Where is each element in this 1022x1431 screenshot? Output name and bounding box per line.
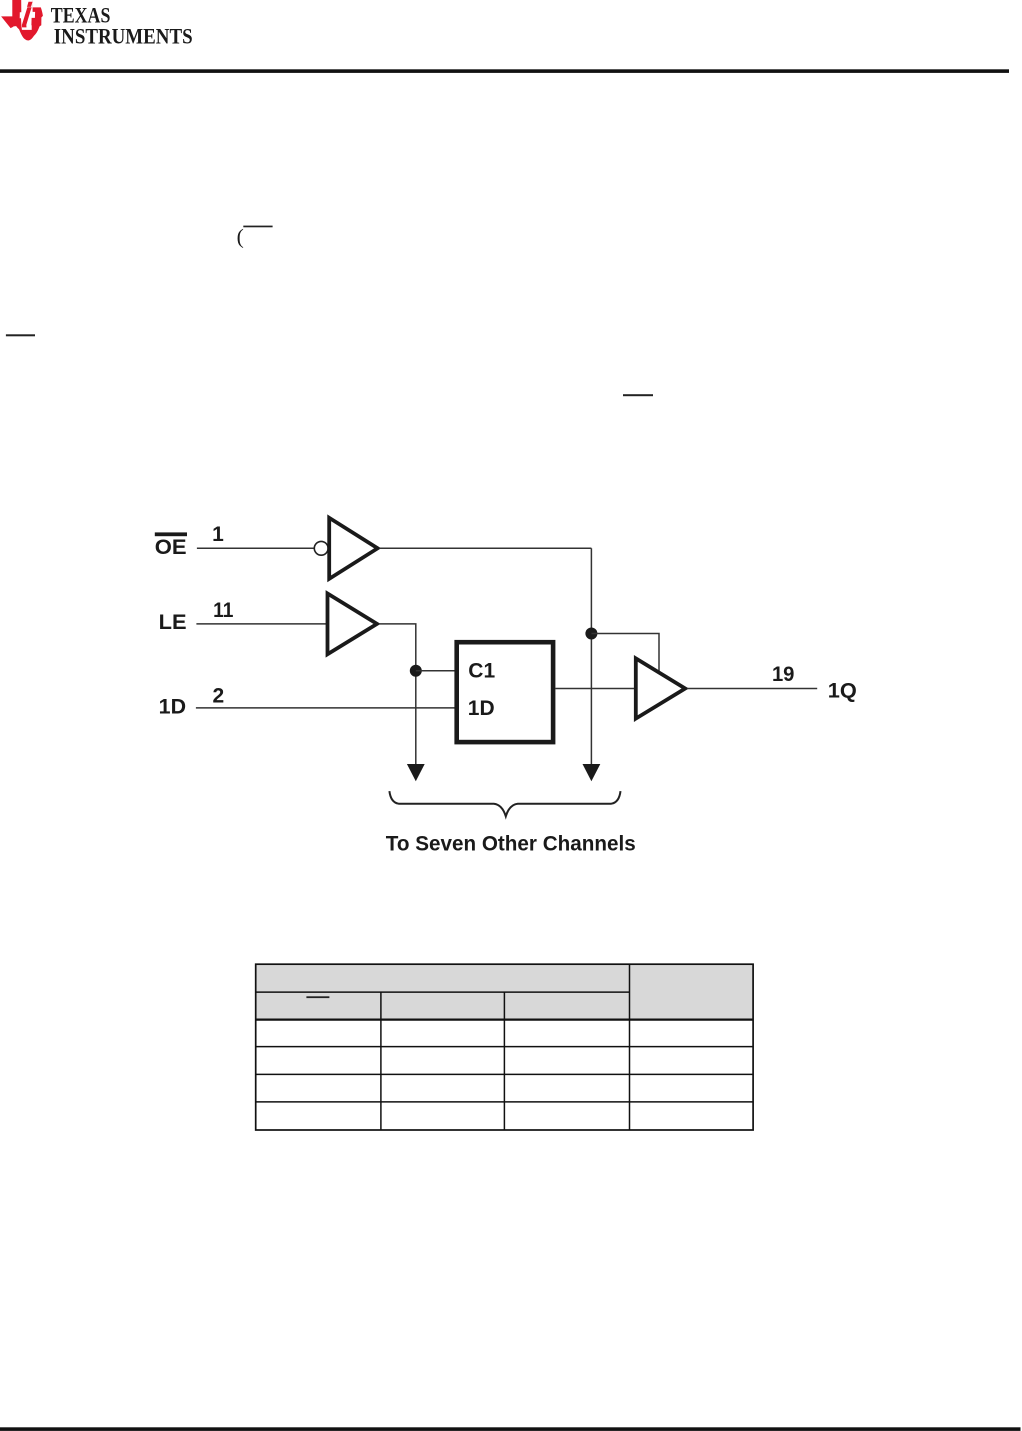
table outer border xyxy=(256,964,753,1130)
table header bottom line xyxy=(256,1018,753,1020)
TI logo red Texas bug xyxy=(1,0,43,41)
svg-text:C1: C1 xyxy=(468,659,495,682)
wire OE to output buffer control xyxy=(591,634,659,672)
wire LE input xyxy=(196,623,327,625)
table header split line xyxy=(256,991,630,993)
svg-text:1D: 1D xyxy=(159,696,186,719)
svg-text:To Seven Other Channels: To Seven Other Channels xyxy=(386,833,636,856)
svg-text:11: 11 xyxy=(213,599,234,622)
wire OE input xyxy=(197,547,314,549)
arrowhead on OE net xyxy=(583,764,601,781)
svg-text:LE: LE xyxy=(159,611,187,634)
stray OE overline (mid page) xyxy=(623,394,653,396)
wire 1Q output xyxy=(687,688,817,690)
buffer U4 (output driver) xyxy=(636,658,685,718)
svg-text:1: 1 xyxy=(212,523,224,546)
table row line 1 xyxy=(256,1046,753,1048)
stray OE overline (top) xyxy=(243,226,272,228)
svg-text:1D: 1D xyxy=(468,697,495,720)
wire U1 output horizontal xyxy=(380,547,592,549)
footer rule xyxy=(0,1427,1021,1431)
svg-text:OE: OE xyxy=(155,536,187,559)
inverter bubble U1 xyxy=(314,541,328,555)
svg-text:INSTRUMENTS: INSTRUMENTS xyxy=(54,24,193,49)
wire latch output xyxy=(555,688,636,690)
wire U2 output to vertical xyxy=(379,624,416,766)
buffer U2 (LE) xyxy=(328,594,378,655)
svg-text:1Q: 1Q xyxy=(828,680,857,703)
wire 1D input xyxy=(196,707,455,709)
latch U3 box xyxy=(457,642,553,742)
table row line 2 xyxy=(256,1073,753,1075)
node OE overbar xyxy=(155,532,187,536)
table header grey fill xyxy=(256,964,753,1019)
svg-text:(: ( xyxy=(237,225,244,249)
table column line 2 xyxy=(503,992,505,1130)
header rule xyxy=(0,69,1009,73)
brace to seven other channels xyxy=(389,791,620,816)
svg-text:2: 2 xyxy=(213,685,225,708)
table row line 3 xyxy=(256,1101,753,1103)
table column line 3 xyxy=(629,964,631,1130)
wire LE to latch C1 input xyxy=(416,670,455,672)
stray OE overline (left margin) xyxy=(6,334,35,336)
wire OE vertical run xyxy=(590,548,592,766)
arrowhead on LE net xyxy=(407,764,425,781)
table column line 1 xyxy=(380,992,382,1130)
table header OE overline xyxy=(306,996,329,998)
junction dot on OE net xyxy=(585,628,597,640)
svg-text:19: 19 xyxy=(772,663,795,686)
buffer U1 (OE inverter) xyxy=(329,518,377,579)
junction dot on LE net xyxy=(410,665,422,677)
